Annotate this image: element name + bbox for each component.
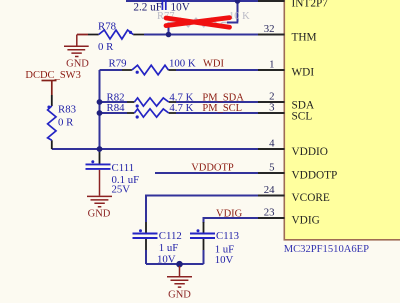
svg-text:23: 23 xyxy=(264,207,275,219)
svg-text:PM_SDA: PM_SDA xyxy=(202,92,244,103)
svg-text:R84: R84 xyxy=(107,102,126,114)
svg-text:4: 4 xyxy=(269,138,275,150)
svg-text:10V: 10V xyxy=(171,1,190,13)
svg-text:GND: GND xyxy=(88,209,111,220)
svg-text:25V: 25V xyxy=(112,184,131,196)
svg-text:4.7 K: 4.7 K xyxy=(169,102,193,114)
svg-text:2.2 uF: 2.2 uF xyxy=(133,1,162,13)
svg-text:VDIG: VDIG xyxy=(292,214,320,226)
svg-text:R78: R78 xyxy=(98,21,116,33)
svg-text:VDDOTP: VDDOTP xyxy=(292,169,338,181)
svg-text:VCORE: VCORE xyxy=(292,192,330,204)
svg-text:MC32PF1510A6EP: MC32PF1510A6EP xyxy=(284,244,369,255)
svg-text:0 R: 0 R xyxy=(98,41,114,53)
svg-text:32: 32 xyxy=(264,23,275,35)
svg-text:DCDC_SW3: DCDC_SW3 xyxy=(25,70,80,81)
svg-text:24: 24 xyxy=(264,184,275,196)
svg-text:C113: C113 xyxy=(216,230,239,242)
svg-text:C112: C112 xyxy=(159,230,182,242)
svg-text:R79: R79 xyxy=(109,58,127,70)
svg-text:GND: GND xyxy=(66,59,89,70)
svg-text:5: 5 xyxy=(269,162,274,174)
svg-text:1: 1 xyxy=(269,59,274,71)
svg-text:GND: GND xyxy=(168,290,191,301)
svg-text:VDDOTP: VDDOTP xyxy=(191,163,234,174)
svg-text:WDI: WDI xyxy=(203,59,224,70)
svg-text:PM_SCL: PM_SCL xyxy=(202,103,242,114)
svg-text:0 R: 0 R xyxy=(58,117,74,129)
svg-text:R83: R83 xyxy=(58,104,76,116)
svg-text:1 uF: 1 uF xyxy=(159,242,179,254)
svg-text:10 K: 10 K xyxy=(229,11,250,22)
svg-text:VDIG: VDIG xyxy=(216,209,243,220)
svg-text:10V: 10V xyxy=(215,254,234,266)
svg-text:INT2P7: INT2P7 xyxy=(292,0,329,10)
svg-text:THM: THM xyxy=(292,31,317,43)
svg-text:C111: C111 xyxy=(112,162,135,174)
svg-text:10V: 10V xyxy=(157,253,176,265)
svg-text:SCL: SCL xyxy=(292,110,313,122)
svg-text:3: 3 xyxy=(269,102,274,114)
svg-text:100 K: 100 K xyxy=(169,58,196,70)
svg-text:VDDIO: VDDIO xyxy=(292,146,328,158)
svg-text:WDI: WDI xyxy=(292,66,315,78)
